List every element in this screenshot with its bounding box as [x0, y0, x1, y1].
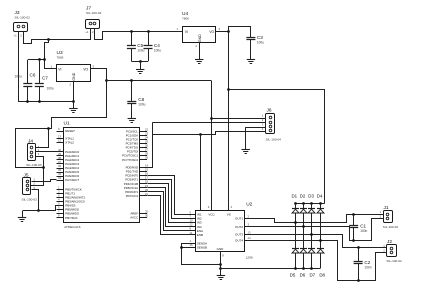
- svg-text:VI: VI: [185, 30, 188, 34]
- svg-text:7806: 7806: [182, 17, 189, 21]
- svg-text:RESET: RESET: [65, 129, 75, 133]
- svg-text:C1: C1: [360, 223, 366, 228]
- svg-text:C7: C7: [42, 75, 48, 80]
- svg-text:100u: 100u: [257, 40, 264, 44]
- svg-text:VI: VI: [58, 67, 61, 71]
- svg-text:SIL-100-02: SIL-100-02: [386, 259, 402, 263]
- svg-text:100u: 100u: [138, 103, 145, 107]
- svg-text:C8: C8: [138, 97, 144, 102]
- svg-text:VO: VO: [83, 67, 88, 71]
- svg-text:13: 13: [248, 230, 252, 234]
- svg-text:U1: U1: [64, 120, 70, 126]
- svg-text:C2: C2: [364, 260, 370, 265]
- svg-text:U2: U2: [246, 202, 252, 208]
- svg-text:C4: C4: [154, 43, 160, 48]
- svg-text:GND: GND: [198, 34, 202, 42]
- svg-text:PA7/ADC7: PA7/ADC7: [65, 178, 79, 182]
- svg-text:L298: L298: [246, 256, 253, 260]
- svg-text:SIL-100-02: SIL-100-02: [15, 16, 31, 20]
- svg-text:D4: D4: [317, 194, 323, 199]
- svg-text:ENB: ENB: [197, 233, 203, 237]
- svg-text:OUT2: OUT2: [235, 225, 243, 229]
- svg-text:100n: 100n: [364, 266, 371, 270]
- svg-text:29: 29: [145, 156, 149, 160]
- svg-text:C3: C3: [257, 35, 263, 40]
- svg-text:30: 30: [145, 214, 149, 218]
- svg-text:D8: D8: [319, 273, 325, 278]
- svg-text:SENSB: SENSB: [197, 245, 207, 249]
- svg-text:OUT1: OUT1: [235, 217, 243, 221]
- svg-text:VCC: VCC: [208, 213, 215, 217]
- svg-text:7805: 7805: [57, 56, 64, 60]
- svg-text:OUT3: OUT3: [235, 233, 243, 237]
- svg-text:OUT4: OUT4: [235, 238, 243, 242]
- svg-text:C6: C6: [30, 72, 36, 77]
- svg-text:SIL-100-02: SIL-100-02: [383, 225, 399, 229]
- svg-text:+1: +1: [14, 34, 18, 38]
- svg-text:AVCC: AVCC: [130, 216, 138, 220]
- svg-text:VO: VO: [209, 30, 214, 34]
- svg-text:12: 12: [58, 139, 62, 143]
- svg-text:VS: VS: [227, 213, 231, 217]
- svg-text:11: 11: [190, 231, 193, 235]
- svg-text:D7: D7: [309, 273, 315, 278]
- svg-text:PD7/OC2: PD7/OC2: [126, 194, 139, 198]
- svg-text:PC7/TOSC2: PC7/TOSC2: [122, 158, 138, 162]
- svg-text:PB7/SCK: PB7/SCK: [65, 216, 77, 220]
- svg-text:100u: 100u: [15, 75, 22, 79]
- svg-text:GND: GND: [72, 72, 76, 80]
- svg-text:SIL-100-03: SIL-100-03: [26, 163, 42, 167]
- svg-text:14: 14: [248, 236, 252, 240]
- svg-text:D2: D2: [300, 194, 306, 199]
- svg-text:ATMEGA16: ATMEGA16: [64, 225, 81, 229]
- svg-text:D6: D6: [300, 273, 306, 278]
- svg-text:100u: 100u: [154, 48, 161, 52]
- svg-text:GND: GND: [217, 247, 225, 251]
- svg-text:+1: +1: [85, 30, 89, 34]
- svg-text:J6: J6: [267, 108, 272, 114]
- svg-text:100u: 100u: [47, 87, 54, 91]
- svg-text:SIL-100-04: SIL-100-04: [266, 138, 282, 142]
- svg-text:D1: D1: [291, 194, 297, 199]
- svg-text:15: 15: [190, 243, 194, 247]
- svg-text:C5: C5: [137, 43, 143, 48]
- svg-text:D3: D3: [308, 194, 314, 199]
- svg-text:100n: 100n: [360, 229, 367, 233]
- svg-text:33: 33: [58, 176, 62, 180]
- svg-text:D5: D5: [290, 273, 296, 278]
- svg-text:SIL-100-02: SIL-100-02: [86, 11, 102, 15]
- svg-text:XTAL2: XTAL2: [65, 141, 74, 145]
- svg-text:SIL-100-03: SIL-100-03: [22, 198, 38, 202]
